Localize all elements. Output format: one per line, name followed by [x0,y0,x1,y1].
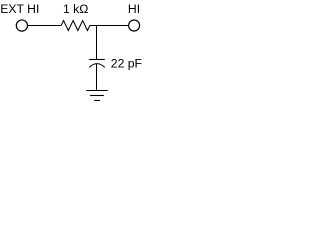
capacitor C top plate [89,59,105,61]
wire capacitor to ground [96,64,98,91]
terminal EXT HI [16,20,27,31]
svg-text:1 kΩ: 1 kΩ [63,2,88,16]
svg-text:EXT HI: EXT HI [0,2,39,16]
wire [90,25,128,27]
wire junction to capacitor [96,26,98,60]
wire [28,25,62,27]
capacitor C bottom curved plate [89,64,105,68]
resistor 1 kΩ [61,21,90,31]
ground [86,91,108,101]
svg-text:22 pF: 22 pF [111,56,142,70]
svg-text:HI: HI [128,2,140,16]
terminal HI [129,20,140,31]
